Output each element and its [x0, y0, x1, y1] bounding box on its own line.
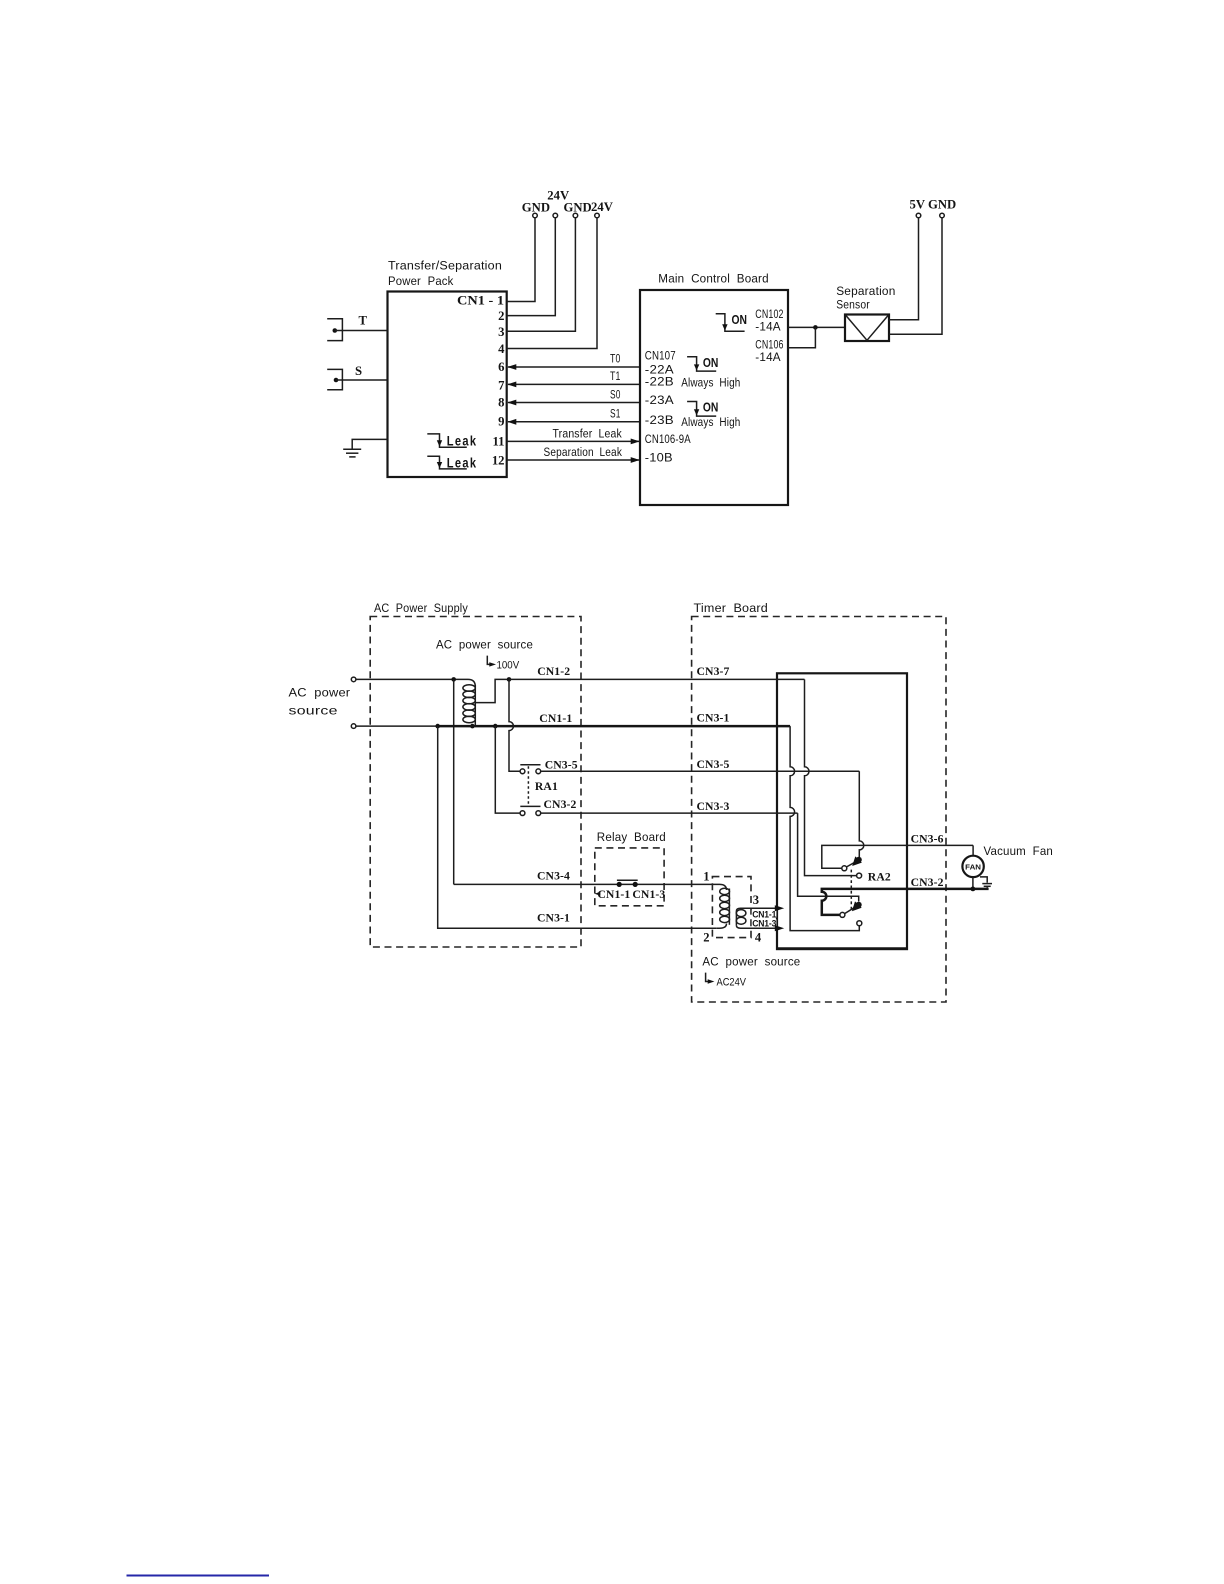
label AC power source AC24V [702, 955, 800, 989]
svg-text:RA2: RA2 [868, 870, 891, 883]
wire T2 secondary CN1-1 lead [741, 907, 777, 909]
svg-text:CN3-6: CN3-6 [911, 832, 944, 845]
wire T to power pack [335, 330, 388, 332]
svg-text:2: 2 [498, 309, 504, 323]
wire AC line to transformer T1 primary top [356, 679, 475, 686]
svg-text:8: 8 [498, 396, 504, 410]
svg-text:GND: GND [564, 201, 592, 215]
relay RA1 lower contact (CN3-2) [520, 806, 541, 815]
main control board U2 [640, 272, 788, 505]
wire T2 primary bottom to CN3-1 [716, 924, 726, 929]
svg-text:CN3-2: CN3-2 [544, 798, 577, 811]
svg-text:Separation: Separation [836, 284, 895, 298]
wire CN3-1 internal drop to lower NO contact [790, 726, 859, 931]
terminal AC line node N [351, 724, 356, 729]
relay RA1 upper contact (CN3-5) [520, 765, 541, 774]
svg-text:source: source [289, 703, 338, 717]
node junction CN102/CN106 [813, 325, 818, 330]
arrow at relay board CN1-1 [595, 892, 601, 896]
terminal GND node (sensor) [940, 213, 945, 218]
svg-text:11: 11 [493, 435, 505, 449]
wire CN3-4 to transformer T2 primary [454, 884, 727, 890]
timer board inner module box [777, 673, 907, 949]
node junction CN3-4 branch [451, 677, 456, 682]
relay RA2 NO contact node [857, 873, 862, 878]
transformer T2 primary coil [720, 888, 730, 925]
timer board dashed enclosure [692, 601, 946, 1002]
relay RA2 mechanical link [850, 870, 852, 912]
svg-text:Relay Board: Relay Board [597, 830, 666, 844]
wire CN1-2 to 24V terminal [507, 218, 556, 316]
svg-text:CN1-1: CN1-1 [597, 888, 630, 901]
wire CN3-2 (fan return) with hop [822, 889, 989, 915]
svg-text:AC24V: AC24V [717, 977, 747, 989]
svg-text:12: 12 [492, 453, 505, 467]
wire CN1-2 to CN3-7 (timer board) [509, 678, 805, 680]
connector S [327, 364, 362, 390]
svg-text:ON: ON [732, 313, 748, 327]
wire T1 (pin 7 from CN107-22B) [507, 369, 640, 387]
svg-text:4: 4 [755, 930, 762, 944]
wire S0 (pin 8 from CN107-23A) [507, 387, 640, 405]
AC power supply dashed enclosure [370, 601, 581, 947]
node junction fan/CN3-2 [971, 887, 976, 892]
power pack U1: Transfer/Separation Power Pack box [388, 259, 507, 477]
capacitor C1 at fan [980, 877, 992, 889]
svg-text:-22B: -22B [645, 375, 674, 389]
node junction CN1-2 / CN3-5 branch [507, 677, 512, 682]
svg-text:3: 3 [498, 325, 504, 339]
svg-text:S0: S0 [610, 387, 621, 401]
svg-text:1: 1 [703, 869, 709, 883]
svg-text:CN3-5: CN3-5 [545, 758, 578, 771]
wire vertical to CN3-4 [453, 679, 455, 884]
wire AC neutral CN1-1 to CN3-1 (timer board) [356, 725, 438, 727]
wire S1 (pin 9 from CN107-23B) [507, 407, 640, 425]
relay RA1 mechanical link [527, 766, 529, 806]
svg-text:Leak: Leak [447, 455, 478, 470]
svg-text:-23B: -23B [645, 413, 674, 427]
wire T2 secondary CN1-3 lead [741, 927, 777, 929]
svg-text:AC Power Supply: AC Power Supply [374, 601, 469, 615]
svg-text:FAN: FAN [965, 862, 981, 871]
svg-text:CN3-5: CN3-5 [697, 758, 730, 771]
svg-text:S1: S1 [610, 407, 621, 421]
svg-text:Transfer Leak: Transfer Leak [553, 426, 623, 440]
svg-text:Always High: Always High [681, 415, 740, 429]
switch RA2 upper (to vacuum fan) [842, 856, 862, 870]
svg-text:2: 2 [703, 930, 709, 944]
svg-text:CN1-3: CN1-3 [632, 888, 665, 901]
transformer T2 secondary coil [736, 908, 746, 928]
svg-text:CN3-3: CN3-3 [697, 800, 730, 813]
svg-text:CN3-1: CN3-1 [697, 712, 730, 725]
svg-text:7: 7 [498, 378, 505, 392]
wire 100V tap to CN1-2 [475, 679, 509, 702]
svg-text:Vacuum Fan: Vacuum Fan [984, 844, 1054, 858]
svg-text:AC power source: AC power source [436, 637, 533, 651]
terminal GND node (CN1-3) [573, 213, 578, 218]
label AC power source 100V [436, 637, 533, 671]
label CN1-3 (T2 secondary) [752, 918, 777, 928]
svg-text:T: T [359, 314, 368, 328]
svg-text:CN1-1: CN1-1 [539, 712, 572, 725]
wire CN3-5 branch vertical with hop over CN1-1 [509, 679, 520, 771]
svg-text:-14A: -14A [755, 319, 781, 333]
wire CN3-6 drop to fan [972, 845, 974, 855]
svg-text:CN1-3: CN1-3 [752, 918, 776, 928]
footer blue rule [127, 1575, 270, 1577]
arrow T2 CN1-3 into module [775, 925, 784, 931]
svg-text:Main Control Board: Main Control Board [658, 272, 769, 286]
terminal GND node (CN1-1) [533, 213, 538, 218]
wire CN3-7 internal drop to RA2 coil side [805, 679, 857, 875]
signal symbol Leak (pin 11) [427, 434, 477, 449]
node T1 bottom to AC neutral [470, 724, 475, 729]
svg-text:Separation Leak: Separation Leak [544, 445, 623, 459]
svg-text:ON: ON [703, 401, 719, 415]
svg-text:Leak: Leak [447, 434, 478, 449]
wire S to power pack [336, 379, 388, 381]
wire CN1-3 to GND terminal [507, 218, 576, 331]
wire CN3-3 internal to lower switch common [798, 813, 859, 901]
svg-text:S: S [355, 364, 362, 378]
transformer T1 primary coil [463, 685, 475, 726]
wire CN1-1 to GND terminal [507, 218, 535, 302]
connector T [327, 314, 367, 341]
separation sensor PS1 [836, 284, 895, 341]
svg-text:-23A: -23A [645, 393, 675, 407]
svg-text:9: 9 [498, 415, 504, 429]
svg-text:24V: 24V [591, 200, 614, 214]
wire T0 (pin 6 from CN107-22A) [507, 352, 640, 370]
svg-text:Always High: Always High [681, 376, 740, 390]
svg-text:Sensor: Sensor [836, 298, 870, 312]
arrow T2 CN1-1 into module [775, 905, 784, 911]
terminal 24V node (CN1-4) [595, 213, 600, 218]
label CN1-1 (T2 secondary) [752, 909, 777, 919]
terminal AC line node L [351, 677, 356, 682]
ground [343, 439, 387, 457]
signal symbol ON (CN102) [716, 313, 747, 331]
wire vertical to RA1 lower contact [495, 726, 520, 813]
vacuum fan M1 [962, 844, 1053, 877]
svg-text:ON: ON [703, 356, 719, 370]
relay board contact CN1-1/CN1-3 [617, 880, 638, 887]
wire CN3-2 to CN3-3 (timer board) [541, 812, 798, 814]
svg-text:3: 3 [753, 893, 759, 907]
svg-text:4: 4 [498, 342, 505, 356]
wire Separation Leak (pin 12 to CN106-10B) [507, 445, 640, 463]
svg-text:CN3-7: CN3-7 [697, 665, 730, 678]
wire Transfer Leak (pin 11 to CN106-9A) [507, 426, 640, 444]
wire fan to CN3-2 [972, 877, 974, 889]
svg-text:5V GND: 5V GND [910, 197, 957, 211]
switch RA2 lower (AC24V return) [840, 901, 862, 925]
terminal 5V node [916, 213, 921, 218]
signal symbol ON (CN107-22) [687, 356, 718, 371]
svg-text:CN1 - 1: CN1 - 1 [457, 293, 504, 307]
svg-text:CN3-2: CN3-2 [911, 876, 944, 889]
wire CN3-5 to timer board [541, 770, 860, 772]
node junction CN3-2 branch [493, 724, 498, 729]
wire CN3-6 from upper switch [822, 845, 973, 868]
relay board dashed enclosure [595, 830, 666, 906]
svg-text:Transfer/Separation: Transfer/Separation [388, 259, 502, 273]
wire sensor to GND terminal [889, 218, 942, 334]
wire CN102-14A to separation sensor [788, 326, 845, 328]
svg-text:CN1-2: CN1-2 [537, 665, 570, 678]
signal symbol Leak (pin 12) [427, 455, 477, 470]
svg-text:T0: T0 [610, 352, 621, 366]
wire CN3-5 internal drop to RA2 common [859, 771, 864, 857]
node junction CN3-1 branch [435, 724, 440, 729]
signal symbol ON (CN107-23) [687, 401, 718, 416]
svg-text:CN107: CN107 [645, 348, 676, 362]
svg-text:T1: T1 [610, 369, 621, 383]
wire sensor to 5V terminal [889, 218, 919, 320]
svg-text:CN106-9A: CN106-9A [645, 432, 692, 446]
transformer T2 dashed enclosure [712, 877, 751, 938]
svg-text:AC power: AC power [289, 685, 351, 699]
svg-text:RA1: RA1 [535, 780, 558, 793]
svg-text:Timer Board: Timer Board [694, 601, 769, 615]
svg-text:Power Pack: Power Pack [388, 274, 454, 288]
svg-text:-10B: -10B [645, 451, 673, 465]
wire vertical to CN3-1 bottom [438, 726, 717, 928]
svg-text:6: 6 [498, 360, 504, 374]
wire CN1-4 to 24V terminal [507, 218, 597, 349]
label AC power source (left) [289, 685, 351, 717]
terminal 24V node (CN1-2) [553, 213, 558, 218]
svg-text:AC power source: AC power source [702, 955, 800, 969]
svg-text:CN3-1: CN3-1 [537, 911, 570, 924]
svg-text:100V: 100V [497, 660, 520, 672]
svg-text:GND: GND [522, 201, 550, 215]
svg-text:-14A: -14A [755, 350, 781, 364]
wire CN106-14A branch [788, 327, 815, 347]
svg-text:CN3-4: CN3-4 [537, 869, 570, 882]
